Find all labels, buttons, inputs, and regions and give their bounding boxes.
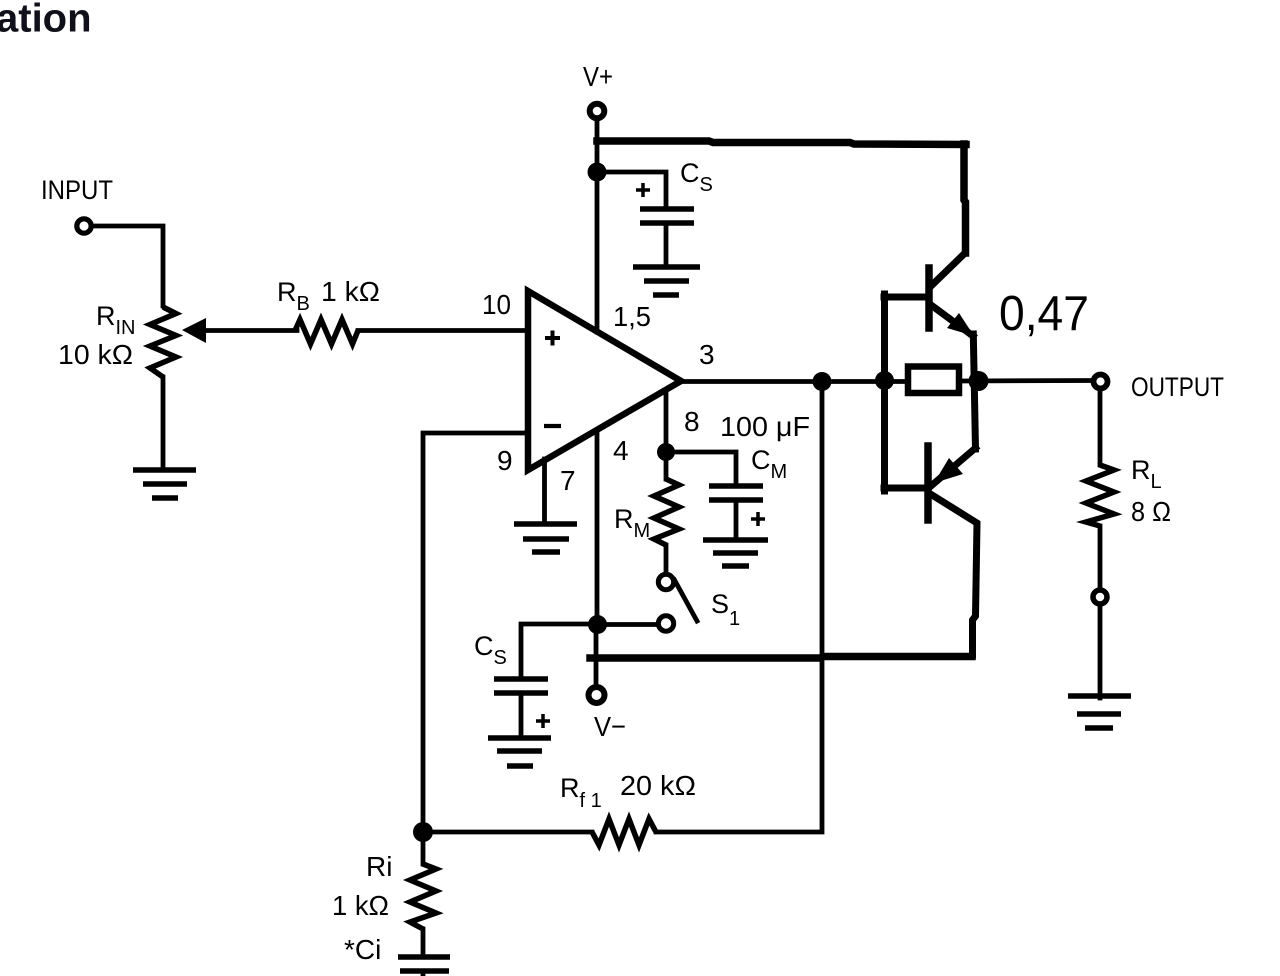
transistor Q1 emitter bbox=[931, 305, 973, 336]
svg-text:Ri: Ri bbox=[366, 851, 392, 882]
svg-text:10 kΩ: 10 kΩ bbox=[58, 339, 133, 370]
svg-text:4: 4 bbox=[613, 435, 629, 466]
svg-text:*Ci: *Ci bbox=[344, 934, 381, 965]
wire V+ rail drop bbox=[964, 144, 966, 253]
svg-text:1 kΩ: 1 kΩ bbox=[321, 276, 380, 307]
wire Q1 base stub bbox=[884, 294, 929, 301]
svg-text:100 μF: 100 μF bbox=[720, 411, 810, 442]
svg-text:OUTPUT: OUTPUT bbox=[1131, 372, 1224, 402]
wire CS1 branch bbox=[597, 172, 666, 209]
capacitor CS bottom bbox=[494, 679, 548, 693]
wire feedback drop bbox=[656, 390, 822, 832]
wire Ri top lead bbox=[421, 841, 426, 864]
wire RL terminal to ground bbox=[1098, 606, 1103, 698]
plus label CM bbox=[751, 512, 765, 526]
resistor RL bbox=[1086, 465, 1114, 526]
plus label CS top bbox=[636, 183, 650, 197]
transistor Q1 emitter arrow bbox=[947, 313, 974, 336]
wire CS bottom branch bbox=[521, 624, 596, 679]
transistor Q1 collector bbox=[931, 254, 964, 286]
terminal V+ bbox=[590, 104, 605, 119]
svg-text:8: 8 bbox=[684, 406, 700, 437]
wire pin 8 lead bbox=[664, 390, 669, 452]
wire V+ rail top bbox=[597, 141, 966, 145]
wire box to output bbox=[959, 378, 1093, 383]
resistor Rf1 bbox=[592, 819, 656, 845]
wire CS bottom to ground bbox=[519, 693, 524, 738]
wire S1 to V- node bbox=[599, 622, 657, 627]
wire pin 4 lead to V- bbox=[596, 430, 597, 686]
svg-text:9: 9 bbox=[497, 445, 513, 476]
ground RIN bbox=[133, 470, 196, 498]
svg-text:INPUT: INPUT bbox=[41, 175, 113, 205]
terminal RL ground side bbox=[1093, 590, 1107, 604]
junction dot V+ bbox=[588, 163, 607, 182]
capacitor CS top bbox=[640, 209, 694, 223]
svg-text:10: 10 bbox=[482, 289, 511, 320]
switch S1 blade bbox=[675, 580, 698, 621]
wire RM bottom lead bbox=[664, 545, 669, 573]
svg-text:3: 3 bbox=[699, 339, 715, 370]
wire RL to terminal bbox=[1098, 526, 1103, 589]
transistor Q2 emitter arrow bbox=[934, 458, 963, 483]
wire output to RL bbox=[1098, 392, 1103, 465]
switch S1 contact top bbox=[658, 574, 673, 589]
wire CM branch bbox=[666, 452, 736, 486]
svg-text:V−: V− bbox=[594, 711, 626, 742]
wire op-amp pin 9 feedback bbox=[423, 433, 528, 832]
wire V+ lead pin 1,5 bbox=[595, 120, 600, 332]
wire input to RIN bbox=[93, 226, 163, 306]
wire arrow to RB bbox=[202, 328, 297, 333]
terminal INPUT bbox=[77, 219, 91, 233]
wire op-amp output bbox=[681, 379, 907, 384]
wire RM top lead bbox=[664, 452, 669, 479]
potentiometer RIN bbox=[150, 307, 176, 377]
svg-text:CM: CM bbox=[751, 445, 787, 483]
svg-text:1 kΩ: 1 kΩ bbox=[332, 890, 389, 921]
switch S1 contact bottom bbox=[658, 616, 673, 631]
wire CS top to ground bbox=[664, 223, 669, 267]
svg-text:1,5: 1,5 bbox=[613, 301, 651, 332]
svg-text:RB: RB bbox=[277, 277, 310, 315]
junction dot feedback bbox=[813, 372, 832, 391]
wire RIN to ground bbox=[161, 377, 166, 468]
resistor 0.47 box bbox=[908, 367, 959, 394]
junction dot base node bbox=[875, 371, 894, 390]
resistor Ri bbox=[410, 864, 436, 929]
wire CM to ground bbox=[734, 500, 739, 540]
transistor Q2 base bar bbox=[924, 446, 932, 520]
wire Rf1 to node bbox=[423, 830, 592, 835]
svg-text:V+: V+ bbox=[583, 61, 613, 92]
junction dot V- node bbox=[588, 615, 607, 634]
wiper arrow RIN bbox=[182, 318, 206, 343]
resistor RB bbox=[295, 320, 358, 345]
ground CM bbox=[703, 540, 768, 566]
svg-text:Rf 1: Rf 1 bbox=[560, 773, 602, 812]
wire RB to op-amp pin 10 bbox=[358, 328, 528, 333]
svg-text:RL: RL bbox=[1131, 455, 1162, 493]
svg-text:7: 7 bbox=[560, 465, 576, 496]
svg-text:RIN: RIN bbox=[96, 301, 136, 339]
wire Ri bottom lead bbox=[421, 929, 426, 957]
wire emitter vertical bbox=[973, 334, 975, 449]
op-amp minus sign bbox=[544, 424, 561, 428]
ground CS top bbox=[633, 267, 700, 295]
plus label CS bottom bbox=[536, 714, 550, 728]
ground pin 7 bbox=[514, 524, 577, 552]
svg-text:CS: CS bbox=[680, 158, 713, 196]
svg-text:0,47: 0,47 bbox=[999, 287, 1089, 341]
svg-text:ation: ation bbox=[0, 0, 92, 41]
wire Ci stub bbox=[421, 971, 426, 976]
junction dot emitter node bbox=[969, 371, 989, 391]
wire transistor base line bbox=[881, 294, 888, 491]
ground RL bbox=[1068, 696, 1131, 728]
transistor Q1 base bar bbox=[925, 268, 933, 328]
svg-text:20 kΩ: 20 kΩ bbox=[620, 770, 696, 801]
svg-text:S1: S1 bbox=[711, 589, 740, 630]
wire Q2 base stub bbox=[884, 485, 928, 492]
wire pin 7 lead bbox=[542, 459, 547, 524]
terminal V- bbox=[589, 687, 605, 703]
transistor Q2 emitter bbox=[931, 448, 976, 486]
svg-text:CS: CS bbox=[474, 631, 507, 669]
op-amp plus sign bbox=[545, 331, 560, 346]
op-amp U1 bbox=[528, 291, 681, 470]
terminal OUTPUT bbox=[1094, 375, 1108, 389]
junction dot pin 8 bbox=[657, 443, 675, 461]
resistor RM bbox=[654, 479, 679, 545]
capacitor CM bbox=[709, 486, 763, 500]
junction dot feedback node bbox=[413, 822, 433, 842]
svg-text:8 Ω: 8 Ω bbox=[1131, 496, 1171, 527]
svg-text:RM: RM bbox=[614, 504, 650, 542]
transistor Q2 collector bbox=[932, 495, 977, 655]
capacitor Ci bbox=[398, 957, 450, 971]
wire V- rail bbox=[590, 657, 972, 659]
ground CS bottom bbox=[488, 738, 551, 766]
